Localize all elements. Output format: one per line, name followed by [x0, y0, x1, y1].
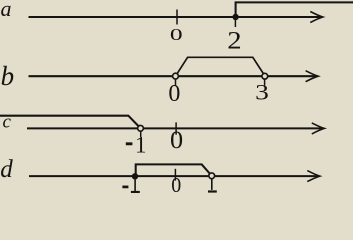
- svg-text:0: 0: [170, 125, 183, 153]
- svg-text:1: 1: [135, 133, 147, 158]
- svg-text:0: 0: [168, 80, 180, 107]
- svg-text:c: c: [3, 111, 12, 132]
- svg-text:a: a: [1, 0, 12, 21]
- svg-text:3: 3: [255, 81, 269, 105]
- svg-text:b: b: [1, 61, 15, 91]
- svg-text:2: 2: [227, 26, 241, 54]
- svg-text:0: 0: [170, 25, 183, 44]
- svg-text:d: d: [0, 156, 13, 183]
- svg-text:0: 0: [171, 175, 181, 193]
